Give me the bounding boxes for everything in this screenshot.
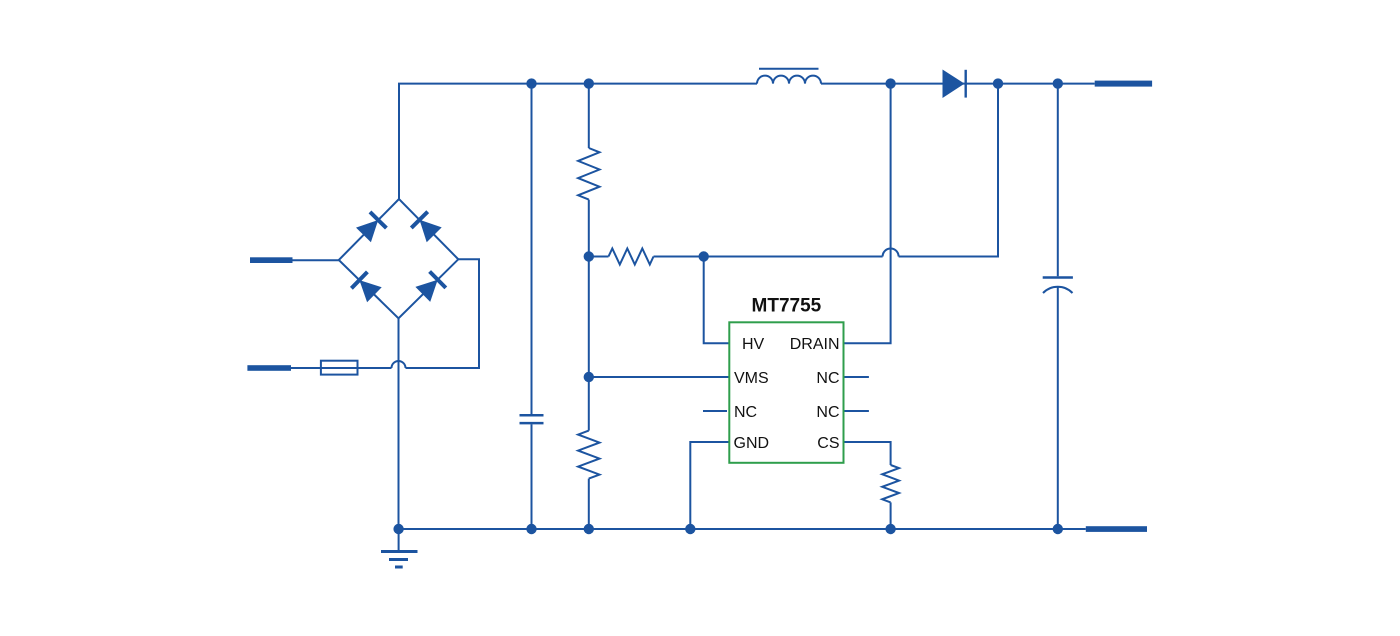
wire AC input upper to bridge left vertex [293,259,339,261]
capacitor C2 branch lower wire [1057,287,1059,529]
svg-text:NC: NC [816,370,839,387]
NC right stub upper [844,376,869,378]
ground symbol stub [398,529,400,552]
wire DRAIN pin riser [844,84,891,344]
resistor R1 branch upper lead [588,84,590,148]
junction dot top rail at drain riser [885,78,895,88]
terminal bar output minus [1086,526,1147,532]
NC right stub lower [844,410,869,412]
svg-text:DRAIN: DRAIN [790,336,840,353]
inductor L1 arcs [757,76,821,84]
wire R3 to node and onward to hop [654,256,883,258]
wire hop to top rail corner [899,84,998,257]
wire hop to bridge right vertex [406,259,480,368]
inductor L1 core bar [759,68,819,70]
output diode D5 triangle [943,70,965,99]
svg-text:GND: GND [734,435,770,452]
svg-text:CS: CS [817,435,839,452]
wire VMS pin to resistor branch [589,376,730,378]
junction dot top rail after diode [993,78,1003,88]
bridge diode D3 cathode bar [351,272,367,288]
junction dot top rail at C2 [1053,78,1063,88]
wire AC input lower through fuse to hop [291,367,392,369]
bridge diode D4 triangle [415,280,437,302]
resistor R2 lower lead [588,479,590,529]
capacitor C1 plates [520,415,544,423]
svg-text:NC: NC [816,404,839,421]
wire GND pin to ground rail [690,442,729,529]
junction dot ground rail at C2 [1053,524,1063,534]
resistor R1 zigzag [578,148,599,200]
svg-text:MT7755: MT7755 [752,295,822,316]
wire CS pin to sense resistor [844,442,891,465]
resistor R3 left lead [589,256,609,258]
wire bottom ground rail [399,528,1086,530]
junction dot R3 left node [584,251,594,261]
junction dot R3 right node [699,251,709,261]
wire bridge bottom riser to ground rail [398,318,400,529]
bridge diode D2 cathode bar [411,212,427,228]
terminal bar AC lower [247,365,291,371]
junction dot VMS node [584,372,594,382]
fuse F1 body [321,361,358,375]
resistor R4 lower lead [890,502,892,529]
ground bar 1 [381,550,418,553]
svg-text:NC: NC [734,404,757,421]
bridge rectifier diamond wires [339,199,459,318]
capacitor C1 branch upper wire [531,84,533,414]
NC left stub [703,410,727,412]
junction dot ground rail left [393,524,403,534]
junction dot ground rail at GND pin [685,524,695,534]
resistor R3 horizontal zigzag [609,249,654,265]
bridge diode D4 cathode bar [430,272,446,288]
capacitor C2 curved plate [1043,287,1073,293]
junction dot top rail at R1 [584,78,594,88]
svg-text:VMS: VMS [734,370,769,387]
ground bar 2 [389,558,408,561]
terminal bar output plus [1095,81,1152,87]
wire hop over bridge bottom riser [392,361,406,368]
resistor R4 sense zigzag [882,465,899,502]
bridge diode D1 cathode bar [370,212,386,228]
capacitor C2 flat plate [1043,276,1073,279]
terminal bar AC upper [250,257,293,263]
wire R1 to R2 vertical through VMS node [588,200,590,431]
junction dot ground rail at R2 [584,524,594,534]
svg-text:HV: HV [742,336,765,353]
capacitor C2 branch upper wire [1057,84,1059,277]
wire hop over drain riser [883,249,899,257]
bridge diode D2 triangle [420,220,442,242]
bridge diode D1 triangle [356,220,378,242]
junction dot ground rail at R4 [885,524,895,534]
junction dot top rail at C1 [526,78,536,88]
output diode D5 cathode bar [965,70,967,98]
wire top rail from inductor to output bar [821,83,1095,85]
resistor R2 zigzag [578,431,599,479]
bridge diode D3 triangle [359,280,381,302]
junction dot ground rail at C1 [526,524,536,534]
IC U1 MT7755 body [729,322,843,463]
ground bar 3 [395,566,403,569]
wire node to HV pin [704,257,730,344]
wire top-left riser and top rail to inductor [399,84,757,199]
capacitor C1 branch lower wire [531,424,533,529]
